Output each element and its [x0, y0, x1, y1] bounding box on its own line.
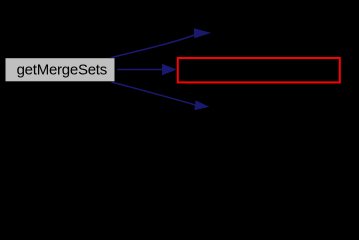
- svg-text:getMergeSets: getMergeSets: [17, 61, 107, 78]
